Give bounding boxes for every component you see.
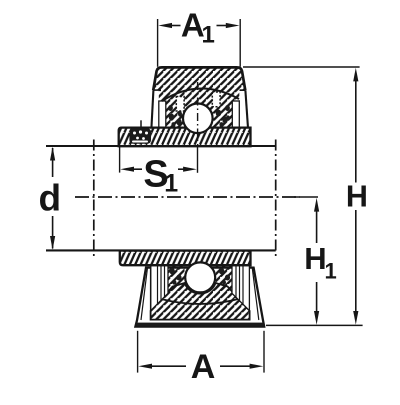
shaft top line <box>46 145 276 147</box>
housing cap (hatched) <box>153 67 245 90</box>
svg-text:1: 1 <box>324 258 336 283</box>
left seal speckles (bottom) <box>169 268 181 285</box>
right seal speckles <box>216 105 230 127</box>
dimension H line and arrows <box>355 80 357 183</box>
S1 center plane extension <box>197 146 199 173</box>
H/H1 extension line bottom <box>266 324 363 326</box>
cap left shoulder line <box>153 89 161 91</box>
left seal zone hatch (bottom) <box>168 266 185 291</box>
svg-text:H: H <box>304 241 326 276</box>
left cage rivet <box>176 97 184 112</box>
bearing outer ring / seal zone (hatched block) <box>158 90 240 128</box>
left bore strip (white) <box>159 101 166 128</box>
dimension S1 extension line <box>119 147 121 173</box>
right housing wall (white) <box>239 91 248 128</box>
right wall outer edge <box>245 90 248 126</box>
right seal zone hatch (bottom) <box>216 266 232 291</box>
bearing center plane line <box>197 82 199 146</box>
cap right shoulder line <box>240 89 246 91</box>
left slinger strips (bottom) <box>151 266 168 311</box>
dimension A line and arrows <box>152 365 187 367</box>
ball (top) <box>183 104 213 134</box>
dimension H1 line and arrows <box>316 211 318 243</box>
horizontal axis centerline <box>75 196 300 198</box>
spherical seat arc <box>162 88 239 101</box>
dimension A1 line and arrows <box>172 25 181 27</box>
shaft left end centerline <box>93 140 95 259</box>
spherical seat arc (bottom) <box>161 298 242 304</box>
dimension S1 line and arrows <box>134 168 143 170</box>
left wall inner edge (bottom) <box>150 268 152 311</box>
dimension d line and arrows <box>52 148 54 177</box>
right wall middle line (bottom) <box>252 268 259 320</box>
inner ring (bottom, hatched) <box>120 251 251 266</box>
set screw (dark) <box>129 128 151 143</box>
base bottom dark band <box>136 323 264 327</box>
svg-text:d: d <box>38 178 61 219</box>
right bore strip (white) <box>232 101 239 128</box>
inner ring + collar (top, hatched) <box>119 128 251 147</box>
housing cap outline <box>153 67 245 90</box>
left wall middle line (bottom) <box>141 268 148 320</box>
right cage rivet <box>212 92 220 107</box>
left seal speckles <box>168 105 182 127</box>
shaft bottom line <box>46 249 276 251</box>
svg-text:1: 1 <box>202 22 215 49</box>
left wall outer edge <box>151 90 153 128</box>
dimension A1 extension lines <box>157 19 159 67</box>
svg-text:H: H <box>346 180 368 214</box>
housing bottom section bowl (hatched) <box>151 283 250 320</box>
ball (bottom) <box>185 262 215 292</box>
dimension A extension lines <box>137 331 139 373</box>
set screw centerline tick <box>140 120 142 128</box>
right slinger strips (bottom) <box>232 266 249 311</box>
centerline extension to H1 <box>294 196 318 198</box>
housing base outline <box>135 268 264 327</box>
left housing wall (white) <box>151 91 158 128</box>
shaft right end centerline <box>275 140 277 259</box>
right seal speckles (bottom) <box>219 268 230 285</box>
H extension line top <box>243 66 360 68</box>
svg-text:A: A <box>191 348 216 386</box>
svg-text:1: 1 <box>164 170 178 198</box>
